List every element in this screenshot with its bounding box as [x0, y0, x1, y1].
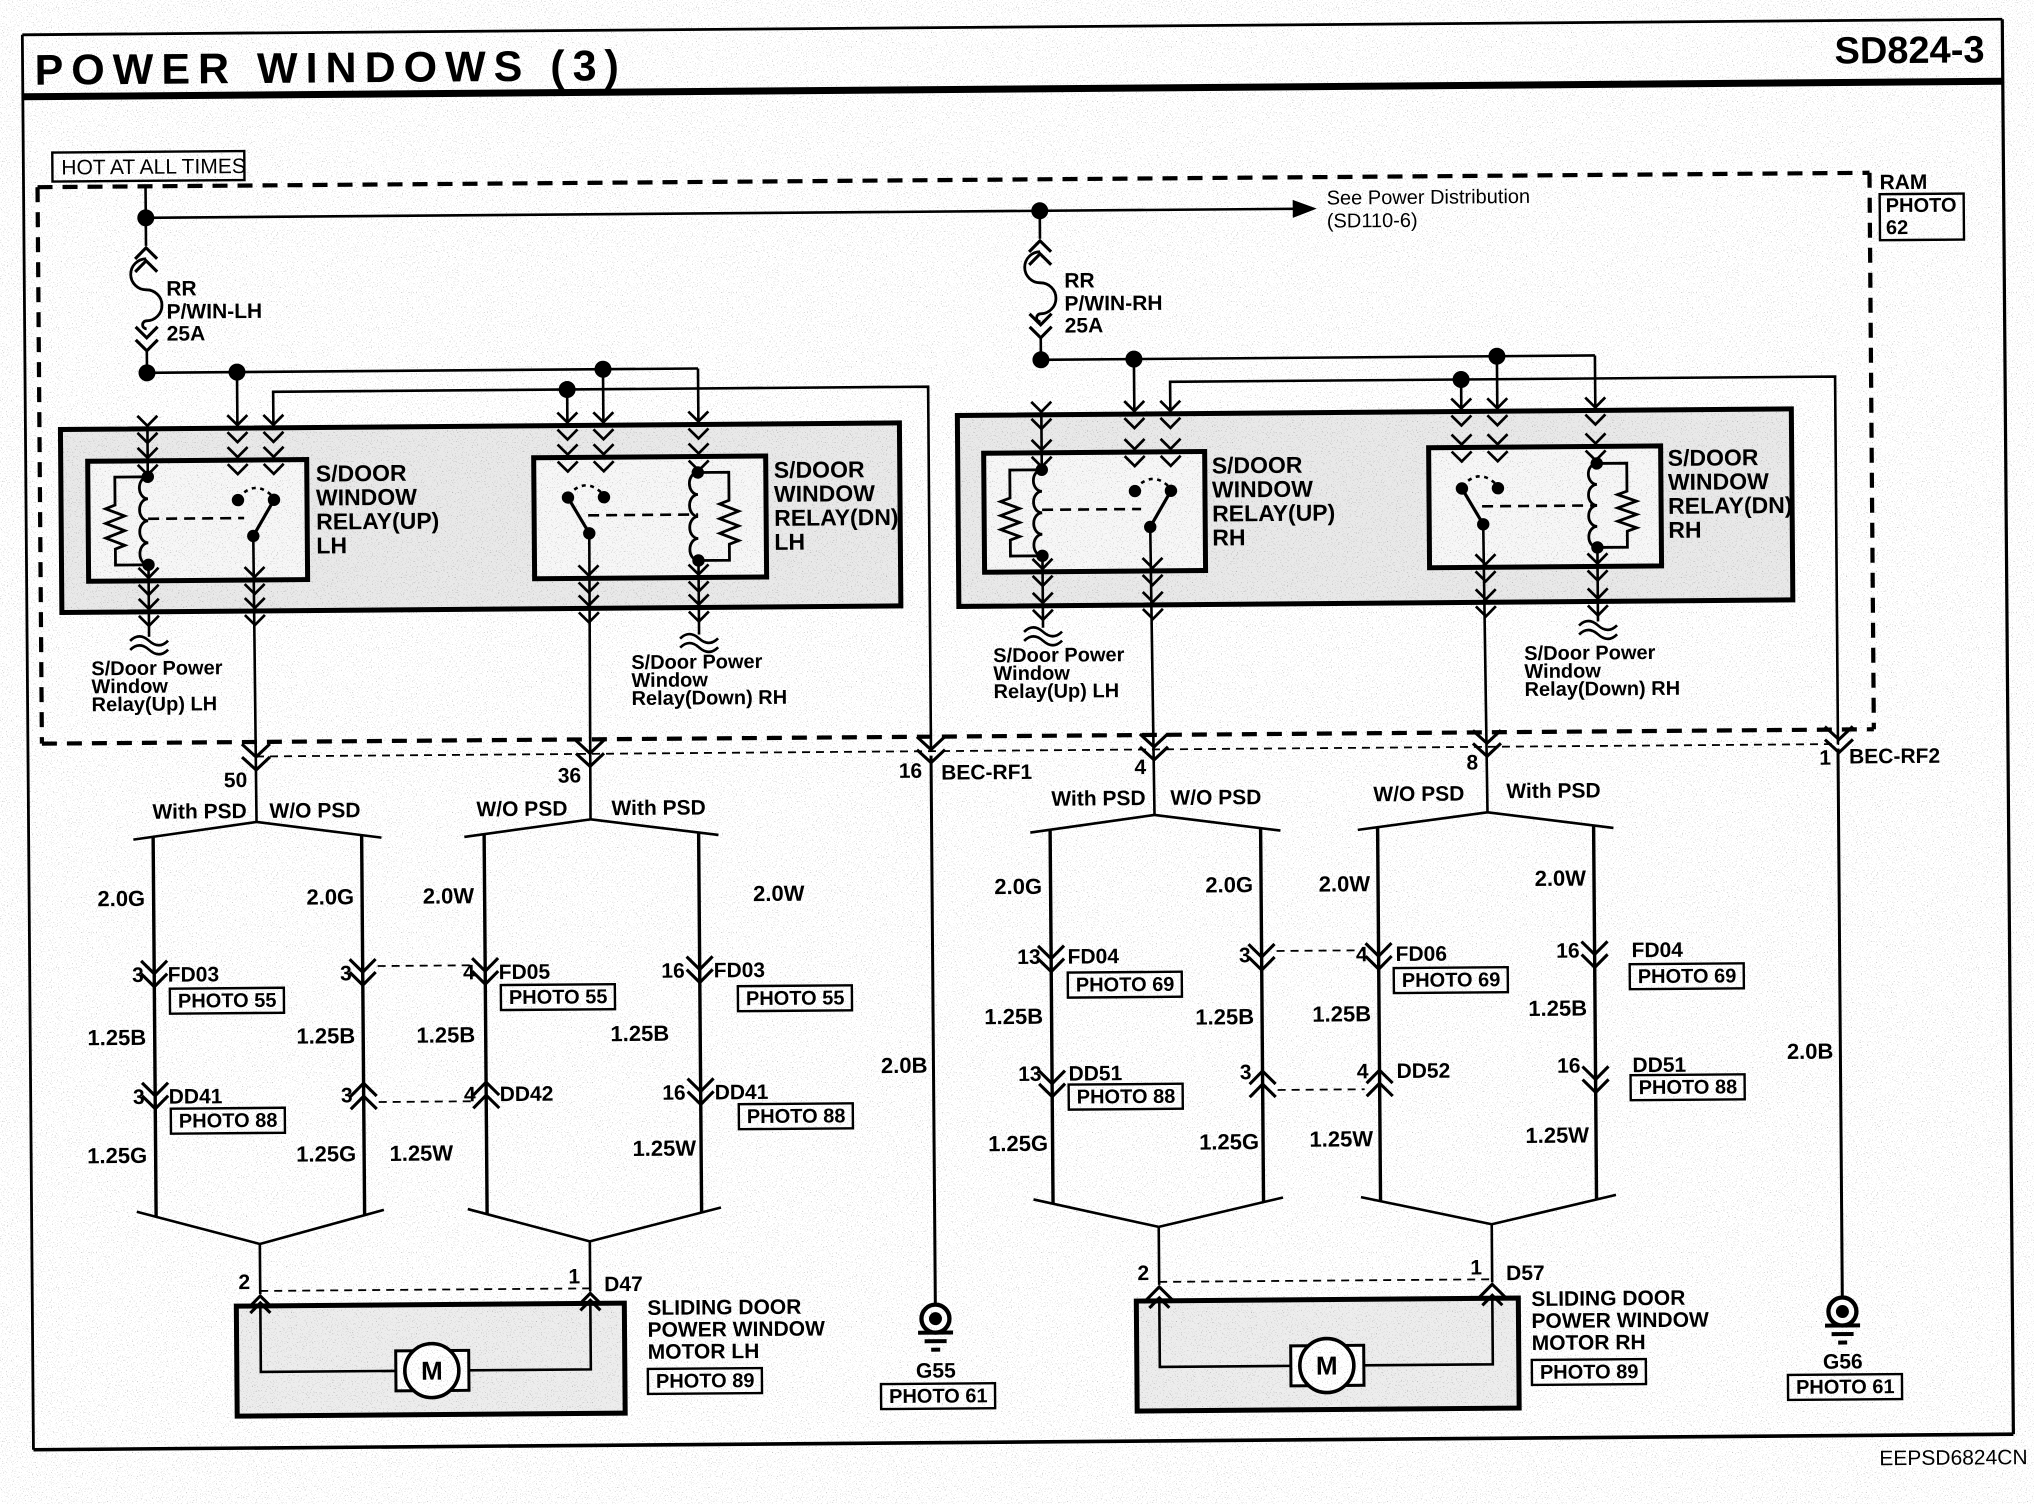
pin number 16 FD03 col4 [661, 960, 685, 983]
LH common wire to BEC-RF1 16 [273, 387, 931, 757]
W/O PSD label col3 [476, 798, 567, 822]
arrow to power distribution [1293, 200, 1317, 218]
connector BEC-RF2 pin 4 [1140, 734, 1168, 760]
drawing number EEPSD6824CN [1879, 1446, 2027, 1470]
connector DD col2 [351, 1083, 377, 1109]
S/Door Power Window Relay(Down) RH note RH side [1524, 642, 1680, 701]
S/DOOR WINDOW RELAY(UP) LH box [88, 460, 308, 582]
relay DN RH coil return wire [1596, 547, 1599, 621]
relay DN LH switch [562, 485, 611, 540]
wire label 1.25B colR2 [1195, 1004, 1254, 1029]
fuse RR P/WIN-LH 25A [130, 218, 162, 373]
wire col2 W/O-PSD [362, 835, 365, 1215]
relay UP RH switch output wire [1150, 527, 1154, 815]
branch split node 50 [133, 821, 381, 840]
connector name D47 [604, 1273, 643, 1296]
pin number 1 [1819, 747, 1831, 770]
relay UP LH coil return wire [147, 565, 150, 637]
relay DN RH resistor [1597, 463, 1637, 547]
G56 PHOTO 61 box [1788, 1374, 1902, 1400]
dashed pair link FD colR2-colR3 [1277, 949, 1364, 952]
wire label 1.25G colR2 [1199, 1129, 1259, 1154]
connector name DD51 colR4 [1632, 1054, 1686, 1077]
relay UP RH coil return wire [1041, 556, 1044, 628]
RH common wire to BEC-RF2 1 [1170, 377, 1838, 750]
wire 1 to ground G56 [1838, 749, 1842, 1298]
junction node LH common at relay-dn [559, 381, 576, 398]
RAM PHOTO 62 box [1880, 194, 1964, 241]
pin number 13 DD51 colR1 [1018, 1063, 1042, 1086]
connector BEC-RF2 pin 1 [1825, 726, 1853, 752]
relay DN RH actuation dashed link [1482, 504, 1597, 508]
wire label 1.25B colR1 [984, 1004, 1043, 1029]
connector FD05 col3 [472, 958, 498, 984]
pin number 3 DD colR2 [1240, 1061, 1252, 1084]
wire entry arrows RH outer box top [1031, 397, 1605, 429]
motor RH wire entry arrows [1149, 1295, 1502, 1308]
See Power Distribution note [1327, 186, 1531, 233]
pin number 16 DD51 colR4 [1557, 1055, 1581, 1078]
connector FD06 colR3 [1366, 943, 1392, 969]
connector FD colR2 [1249, 944, 1275, 970]
connector DD colR2 [1250, 1071, 1276, 1097]
wire LH bus to relay-dn NO contact [603, 369, 604, 497]
connector name FD03 col1 [168, 963, 220, 986]
motor RH M symbol [1300, 1338, 1354, 1392]
pin number 3 FD03 col1 [132, 964, 144, 987]
pin number 4 DD42 col3 [464, 1083, 476, 1106]
wire exit arrows relay UP LH bottom [139, 567, 265, 595]
wire exit arrows relay UP RH bottom [1032, 558, 1162, 586]
pin number 4 FD05 col3 [463, 961, 475, 984]
fuse RR P/WIN-RH 25A [1024, 211, 1056, 360]
connector FD04 colR4 [1582, 941, 1608, 967]
connector BEC-RF1 pin 50 [242, 744, 270, 770]
With PSD label col4 [611, 796, 705, 820]
connector BEC-RF1 pin 36 [576, 740, 604, 766]
connector BEC-RF1 pin 16 [917, 737, 945, 763]
motor RH wiring [1159, 1298, 1493, 1367]
S/DOOR WINDOW RELAY(DN) RH box [1429, 446, 1662, 568]
pin number 16 FD04 colR4 [1556, 940, 1580, 963]
wire col4 With-PSD [699, 833, 702, 1213]
motor LH name [647, 1296, 825, 1364]
connector D57 dashed line [1159, 1279, 1492, 1282]
wire entry arrows relay UP LH top [138, 447, 284, 475]
connector D47 pin 1 [577, 1293, 603, 1319]
relay UP LH switch [232, 488, 281, 543]
motor LH M symbol [405, 1343, 459, 1397]
wire RH bus to relay-dn NO contact [1497, 356, 1498, 488]
wire label 1.25B colR3 [1312, 1001, 1371, 1026]
branch split node 8 [1358, 811, 1614, 830]
pin number 50 [224, 769, 248, 792]
FD03 PHOTO 55 box col1 [170, 988, 284, 1014]
wire label 1.25G col2 [296, 1141, 356, 1166]
wire label 2.0G col1 [97, 886, 145, 911]
motor LH wire entry arrows [250, 1300, 600, 1313]
junction node RH common at relay-dn [1453, 371, 1470, 388]
S/DOOR WINDOW RELAY(UP) LH name [316, 460, 440, 559]
relay DN LH actuation dashed link [588, 513, 698, 516]
wire label 1.25W col3 [389, 1140, 453, 1166]
wire label 2.0W colR3 [1319, 871, 1371, 896]
wire entry arrows relay DN RH top [1452, 433, 1606, 461]
relay UP RH coil return continuation [1024, 627, 1062, 645]
junction node RH bus at relay-dn switch [1488, 348, 1505, 365]
pin number 2 D57 [1137, 1262, 1149, 1285]
connector FD03 col4 [687, 956, 713, 982]
S/DOOR WINDOW RELAY(UP) RH box [984, 452, 1206, 573]
relay DN LH resistor [698, 472, 739, 560]
junction node RH bus at relay-up switch [1032, 351, 1142, 369]
relay UP RH actuation dashed link [1042, 508, 1141, 511]
pin number 16 [899, 760, 923, 783]
S/Door Power Window Relay(Up) LH note [91, 657, 223, 716]
connector name FD06 colR3 [1396, 943, 1448, 966]
fuse RR P/WIN-LH 25A label [166, 277, 262, 346]
pin number 36 [558, 764, 582, 787]
ground name G56 [1823, 1350, 1863, 1373]
connector DD41 col1 [142, 1083, 168, 1109]
W/O PSD label colR3 [1373, 782, 1464, 806]
pin number 4 FD06 colR3 [1356, 943, 1368, 966]
connector name DD41 col4 [715, 1081, 769, 1104]
branch split node 4 [1030, 814, 1280, 833]
connector name FD05 col3 [499, 961, 551, 984]
FD06 PHOTO 69 box colR3 [1394, 967, 1508, 993]
pin number 3 FD col2 [340, 962, 352, 985]
pin number 16 DD41 col4 [662, 1082, 686, 1105]
wire label 2.0W col4 [753, 881, 805, 906]
branch merge to D57 pin 1 [1361, 1195, 1617, 1283]
connector D47 pin 2 [247, 1296, 273, 1322]
G55 PHOTO 61 box [881, 1383, 995, 1409]
relay DN LH coil [689, 466, 704, 567]
connector DD51 colR1 [1039, 1071, 1065, 1097]
relay UP LH coil [139, 471, 154, 572]
wire exit arrows relay DN LH bottom [579, 564, 709, 592]
fuse RR P/WIN-RH 25A label [1064, 269, 1163, 338]
connector DD52 colR3 [1367, 1070, 1393, 1096]
relay DN LH coil return wire [697, 560, 700, 634]
wire LH bus to relay-dn coil [697, 368, 700, 473]
S/DOOR WINDOW RELAY(DN) LH name [774, 456, 899, 555]
junction node at fuse RR P/WIN-RH [1031, 202, 1048, 219]
pin number 13 FD04 colR1 [1017, 946, 1041, 969]
connector name DD42 col3 [500, 1083, 554, 1106]
title POWER WINDOWS (3) [34, 42, 627, 95]
connector D57 pin 1 [1479, 1284, 1505, 1310]
junction node LH bus at relay-dn switch [594, 361, 611, 378]
motor LH PHOTO 89 box [648, 1368, 762, 1394]
wire colR3 W/O-PSD [1378, 827, 1381, 1201]
wire label 1.25B col3 [416, 1022, 475, 1047]
With PSD label colR4 [1506, 779, 1600, 803]
wire RH bus to relay-dn coil [1594, 355, 1597, 463]
battery feed wire [144, 186, 147, 218]
wire label 2.0B RH [1787, 1039, 1834, 1064]
relay DN RH coil return continuation [1579, 621, 1617, 639]
pin number 4 [1134, 756, 1146, 779]
DD41 PHOTO 88 box col1 [171, 1108, 285, 1134]
wire label 2.0G col2 [306, 884, 354, 909]
connector FD03 col1 [141, 961, 167, 987]
connector separation dashed line [256, 744, 1839, 756]
connector name BEC-RF2 [1849, 745, 1940, 769]
wire 16 to ground G55 [931, 756, 935, 1305]
pin number 2 D47 [238, 1271, 250, 1294]
ground G56 [1825, 1297, 1860, 1342]
connector DD42 col3 [473, 1082, 499, 1108]
wire label 2.0G colR1 [994, 874, 1042, 899]
wire label 1.25W colR4 [1525, 1123, 1589, 1149]
wire RH common to relay-dn contact [1460, 380, 1463, 489]
S/Door Power Window Relay(Up) LH note RH side [993, 644, 1125, 703]
connector name DD41 col1 [169, 1085, 223, 1108]
motor RH PHOTO 89 box [1532, 1359, 1646, 1385]
W/O PSD label col2 [269, 799, 360, 823]
relay UP LH coil return continuation [130, 636, 168, 654]
pin number 1 D47 [568, 1265, 580, 1288]
wire exit arrows relay DN RH bottom [1475, 553, 1607, 581]
LH relay container box [60, 423, 900, 613]
With PSD label colR1 [1051, 787, 1145, 811]
relay DN RH coil [1588, 457, 1603, 554]
page number SD824-3 [1834, 29, 1984, 72]
connector name D57 [1506, 1262, 1545, 1285]
pin number 4 DD52 colR3 [1357, 1060, 1369, 1083]
wire label 2.0B LH [881, 1053, 928, 1078]
connector D57 pin 2 [1146, 1287, 1172, 1313]
ground G55 [918, 1305, 953, 1350]
connector FD col2 [350, 959, 376, 985]
wire label 1.25G col1 [87, 1143, 147, 1168]
wire label 1.25B colR4 [1528, 996, 1587, 1021]
connector name BEC-RF1 [941, 761, 1033, 785]
HOT AT ALL TIMES label [52, 151, 246, 182]
wire colR1 With-PSD [1050, 830, 1053, 1204]
branch merge to D47 pin 1 [468, 1207, 722, 1292]
S/DOOR WINDOW RELAY(DN) LH box [534, 456, 767, 579]
relay DN LH switch output wire [588, 533, 591, 819]
pin number 3 DD41 col1 [133, 1086, 145, 1109]
S/DOOR WINDOW RELAY(UP) RH name [1212, 451, 1336, 550]
connector BEC-RF2 pin 8 [1473, 730, 1501, 756]
connector name FD04 colR4 [1631, 939, 1683, 962]
junction node LH bus at relay-up switch [138, 364, 245, 382]
dashed pair link FD col2-col3 [378, 964, 470, 967]
relay UP RH resistor [1000, 470, 1042, 556]
With PSD label col1 [152, 800, 246, 824]
branch split node 36 [464, 818, 718, 837]
junction node at fuse RR P/WIN-LH [137, 209, 154, 226]
connector DD51 colR4 [1582, 1066, 1608, 1092]
FD05 PHOTO 55 box col3 [501, 984, 615, 1010]
relay UP LH resistor [105, 477, 148, 565]
relay UP LH coil wire [146, 429, 149, 477]
relay UP RH switch [1129, 479, 1178, 534]
feed wire to power distribution [146, 209, 1312, 218]
motor RH name [1531, 1287, 1709, 1355]
connector name FD03 col4 [714, 959, 766, 982]
wire col1 With-PSD [153, 837, 156, 1217]
wire label 1.25G colR1 [988, 1131, 1048, 1156]
connector name DD51 colR1 [1068, 1062, 1122, 1085]
pin number 8 [1466, 751, 1478, 774]
wire LH common to relay-dn contact [566, 390, 569, 498]
FD03 PHOTO 55 box col4 [738, 985, 852, 1011]
sliding door power window motor RH box [1136, 1298, 1519, 1411]
wire label 1.25W colR3 [1309, 1126, 1373, 1152]
wire label 1.25W col4 [632, 1136, 696, 1162]
RAM label [1879, 171, 1927, 194]
wire label 1.25B col4 [610, 1021, 669, 1046]
wire colR4 With-PSD [1594, 825, 1597, 1199]
connector name FD04 colR1 [1068, 945, 1120, 968]
connector name DD52 colR3 [1396, 1060, 1450, 1083]
relay UP LH actuation dashed link [148, 517, 244, 520]
S/Door Power Window Relay(Down) RH note [631, 651, 787, 710]
motor RH commutator [1291, 1345, 1364, 1386]
wire RH bus to relay-up NO contact [1134, 359, 1135, 491]
wire LH bus to relay-up NO contact [237, 372, 238, 500]
pin number 3 FD colR2 [1239, 944, 1251, 967]
dashed pair link DD col2-col3 [379, 1100, 471, 1103]
connector D47 dashed line [260, 1288, 590, 1291]
DD41 PHOTO 88 box col4 [739, 1103, 853, 1129]
FD04 PHOTO 69 box colR1 [1068, 972, 1182, 998]
wire entry arrows relay UP RH top [1032, 439, 1181, 467]
title rule [23, 81, 2003, 97]
LH bus wire from fuse [147, 368, 698, 372]
W/O PSD label colR2 [1170, 786, 1261, 810]
wire label 1.25B col2 [296, 1023, 355, 1048]
wire col3 W/O-PSD [484, 834, 487, 1214]
wire label 2.0G colR2 [1205, 872, 1253, 897]
RH bus wire from fuse [1041, 355, 1595, 359]
connector DD41 col4 [688, 1078, 714, 1104]
branch merge to D47 pin 2 [137, 1210, 385, 1295]
motor LH wiring [260, 1303, 591, 1372]
dashed pair link DD colR2-colR3 [1278, 1088, 1365, 1091]
wire colR2 W/O-PSD [1261, 828, 1264, 1202]
pin number 1 D57 [1470, 1256, 1482, 1279]
sliding door power window motor LH box [236, 1303, 625, 1416]
relay UP RH coil wire [1040, 415, 1043, 470]
RH relay container box [957, 409, 1792, 607]
FD04 PHOTO 69 box colR4 [1630, 963, 1744, 989]
connector FD04 colR1 [1038, 946, 1064, 972]
wire exit arrows RH outer box bottom [1033, 588, 1608, 620]
wire label 2.0W col3 [423, 883, 475, 908]
relay DN LH coil return continuation [680, 634, 718, 652]
branch merge to D57 pin 2 [1034, 1197, 1284, 1285]
DD51 PHOTO 88 box colR4 [1631, 1074, 1745, 1100]
wire entry arrows relay DN LH top [558, 443, 709, 471]
wire exit arrows LH outer box bottom [139, 594, 709, 625]
S/DOOR WINDOW RELAY(DN) RH name [1668, 444, 1793, 543]
hot-at-all-times dashed boundary box [38, 173, 1874, 744]
pin number 3 DD col2 [341, 1084, 353, 1107]
relay DN RH switch output wire [1483, 524, 1487, 812]
DD51 PHOTO 88 box colR1 [1069, 1084, 1183, 1110]
relay UP RH coil [1033, 464, 1048, 563]
motor LH commutator [396, 1350, 469, 1391]
wire label 1.25B col1 [87, 1025, 146, 1050]
wire entry arrows LH outer box top [137, 411, 708, 442]
relay DN RH switch [1456, 476, 1505, 531]
relay UP LH switch output wire [253, 536, 256, 822]
wire label 2.0W colR4 [1535, 866, 1587, 891]
ground name G55 [916, 1359, 956, 1382]
